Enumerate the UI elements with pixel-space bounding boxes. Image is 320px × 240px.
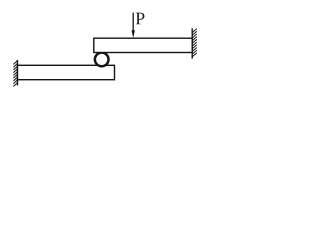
right wall hatching <box>192 29 197 57</box>
right wall line <box>191 28 193 59</box>
upper beam <box>94 38 192 52</box>
left wall hatching <box>13 61 17 87</box>
left wall line <box>17 60 19 86</box>
force arrow P head <box>132 30 135 38</box>
lower beam <box>18 65 115 79</box>
force arrow P stem <box>132 13 134 32</box>
roller circle <box>95 53 109 67</box>
label P <box>136 13 145 25</box>
